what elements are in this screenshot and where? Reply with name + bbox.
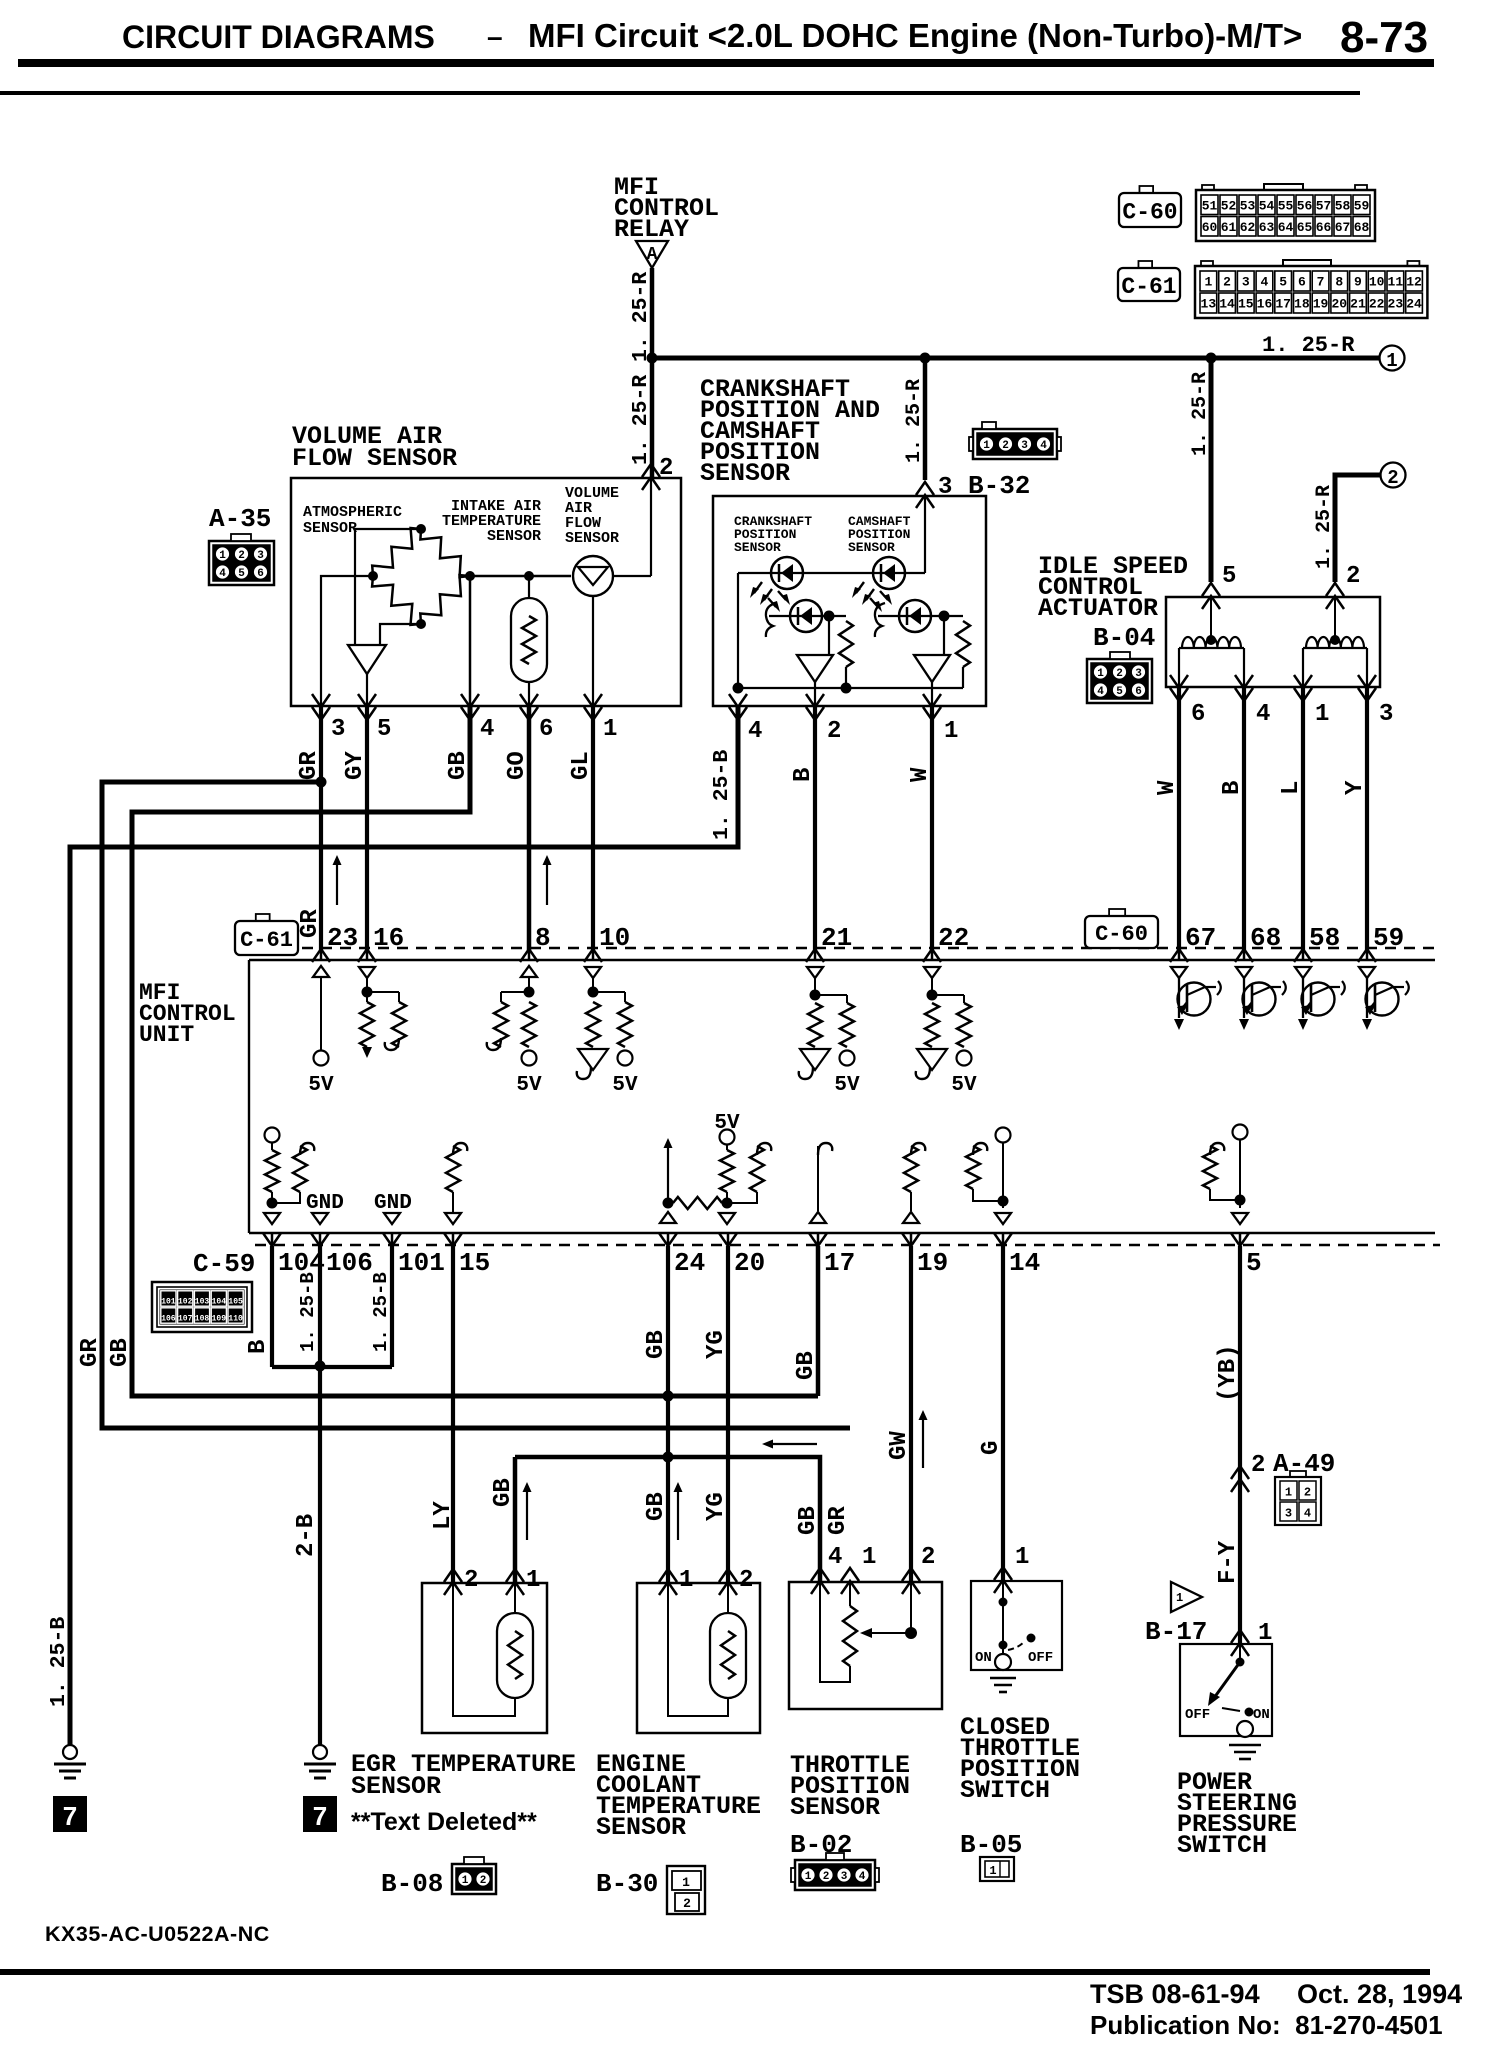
svg-text:2: 2	[823, 1871, 830, 1883]
label INTAKE AIR TEMPERATURE SENSOR	[442, 498, 541, 545]
svg-text:1: 1	[682, 1875, 690, 1890]
crank cam sensor box	[713, 496, 986, 706]
svg-text:20: 20	[734, 1248, 765, 1278]
svg-text:SENSOR: SENSOR	[351, 1772, 441, 1801]
svg-text:GB: GB	[643, 1492, 670, 1521]
svg-text:16: 16	[373, 923, 404, 953]
MFI box bottom dashed	[255, 1244, 1440, 1246]
label GW	[886, 1431, 913, 1460]
svg-text:2-B: 2-B	[293, 1514, 320, 1557]
label GB left	[107, 1338, 134, 1367]
svg-text:5V: 5V	[834, 1074, 860, 1097]
wire YB pin5 to A-49	[1238, 1246, 1242, 1644]
junction bridge top	[416, 524, 426, 534]
svg-text:3: 3	[1021, 440, 1028, 452]
label GND pin 106	[306, 1192, 344, 1215]
wire pin106 ground leg	[318, 1246, 322, 1367]
svg-text:5: 5	[1279, 275, 1287, 290]
svg-text:UNIT: UNIT	[139, 1022, 194, 1048]
svg-text:2: 2	[1346, 563, 1360, 590]
CTP switch label	[960, 1713, 1080, 1805]
svg-text:1: 1	[462, 1875, 469, 1887]
svg-text:23: 23	[1388, 297, 1404, 312]
svg-text:GB: GB	[490, 1478, 517, 1507]
junction relay bus	[647, 353, 658, 364]
svg-text:1: 1	[526, 1567, 540, 1594]
pin 4 B-32	[729, 694, 762, 745]
svg-text:OFF: OFF	[1185, 1707, 1210, 1723]
svg-text:58: 58	[1309, 923, 1340, 953]
svg-text:109: 109	[212, 1315, 227, 1324]
connector B-04 block	[1087, 652, 1152, 703]
label B-17	[1145, 1617, 1207, 1647]
header rule thin	[0, 91, 1360, 95]
label GB TPS	[795, 1506, 822, 1535]
svg-text:G: G	[978, 1441, 1005, 1455]
svg-text:67: 67	[1335, 220, 1351, 235]
pin 19 MFI bottom	[902, 1232, 948, 1278]
svg-text:1. 25-B: 1. 25-B	[47, 1617, 71, 1707]
svg-text:B-17: B-17	[1145, 1617, 1207, 1647]
junction 2-B	[315, 1361, 326, 1372]
wire GB pin24 to ECT pin1	[666, 1246, 670, 1583]
idle speed control actuator box	[1166, 597, 1380, 687]
pin 3 ISC	[1358, 675, 1393, 728]
transistor pin 58	[1295, 967, 1345, 1030]
label GR left	[77, 1338, 104, 1367]
svg-text:B-05: B-05	[960, 1830, 1022, 1860]
svg-text:2: 2	[683, 1896, 691, 1911]
svg-text:2: 2	[1304, 1486, 1311, 1500]
wire B crank pin2 to pin21	[813, 706, 817, 950]
svg-text:1. 25-R: 1. 25-R	[903, 379, 926, 463]
svg-text:2: 2	[739, 1567, 753, 1594]
transistor pin 68	[1236, 967, 1286, 1030]
svg-text:62: 62	[1240, 220, 1256, 235]
svg-text:GR: GR	[296, 751, 323, 780]
MFI box outline	[249, 960, 1435, 1233]
label GR at pin 23	[297, 909, 324, 938]
label W cam	[907, 767, 934, 782]
connector B-02 block	[791, 1853, 879, 1890]
svg-text:101: 101	[398, 1248, 445, 1278]
svg-text:3: 3	[1135, 668, 1142, 680]
svg-text:GND: GND	[374, 1192, 412, 1215]
connector C-61 label box	[1118, 261, 1180, 301]
connector C-60 label box small	[1085, 909, 1158, 948]
wire GW pin19 to TPS	[909, 1246, 913, 1582]
svg-text:107: 107	[178, 1315, 193, 1324]
pin 10 internal	[577, 967, 638, 1097]
svg-text:W: W	[1154, 780, 1181, 795]
pin 19 internal	[903, 1143, 925, 1223]
svg-text:GB: GB	[793, 1351, 820, 1380]
svg-text:59: 59	[1373, 923, 1404, 953]
svg-text:1: 1	[1015, 1544, 1029, 1571]
svg-text:10: 10	[1369, 275, 1385, 290]
svg-text:A-35: A-35	[209, 504, 271, 534]
svg-text:C-60: C-60	[1095, 922, 1148, 947]
wire GB bus1 dot check	[663, 1391, 674, 1402]
svg-text:14: 14	[1009, 1248, 1040, 1278]
svg-text:4: 4	[1261, 275, 1269, 290]
wire Y ISC3 to pin59	[1365, 687, 1369, 950]
wire crank photo to node	[822, 615, 846, 617]
connector B-05 block	[980, 1857, 1014, 1881]
pin 17 internal	[810, 1143, 832, 1223]
pin 2 ISC	[1326, 563, 1360, 609]
svg-text:15: 15	[1238, 297, 1254, 312]
svg-text:68: 68	[1354, 220, 1370, 235]
pin 16 internal	[359, 967, 406, 1058]
svg-text:B: B	[245, 1340, 272, 1354]
svg-text:4: 4	[219, 568, 226, 580]
label 2-B	[293, 1514, 320, 1557]
svg-text:58: 58	[1335, 198, 1351, 213]
svg-text:6: 6	[1191, 701, 1205, 728]
junction IAT tap	[524, 571, 534, 581]
svg-text:19: 19	[1313, 297, 1329, 312]
svg-text:GO: GO	[504, 751, 531, 780]
svg-text:1. 25-R: 1. 25-R	[629, 375, 653, 465]
pin 1 B-32	[923, 694, 958, 745]
svg-text:14: 14	[1219, 297, 1235, 312]
pin 16 MFI top	[358, 923, 404, 962]
svg-text:52: 52	[1221, 198, 1237, 213]
svg-text:GY: GY	[342, 751, 369, 780]
wire GR pin3 to pin23	[319, 706, 323, 950]
svg-text:110: 110	[228, 1315, 243, 1324]
svg-text:1. 25-B: 1. 25-B	[297, 1272, 319, 1352]
TPS wiper	[860, 1582, 917, 1639]
svg-text:GR: GR	[297, 909, 324, 938]
svg-text:4: 4	[480, 716, 494, 743]
pin 5 VAF	[358, 694, 391, 743]
resistor cam sensor	[956, 621, 970, 688]
arrow left GB bus	[762, 1440, 817, 1449]
svg-text:105: 105	[228, 1298, 243, 1307]
resistor bridge atmospheric sensor	[372, 528, 470, 625]
pin 1 ECT	[659, 1567, 693, 1595]
label 1.25-R lower	[629, 375, 653, 465]
svg-text:68: 68	[1250, 923, 1281, 953]
svg-text:7: 7	[313, 1801, 327, 1831]
label GO	[504, 751, 531, 780]
wire 1.25-R to ISC pin5	[1209, 358, 1214, 582]
connector B-32 block	[969, 422, 1061, 459]
svg-text:6: 6	[539, 716, 553, 743]
svg-text:SWITCH: SWITCH	[960, 1776, 1050, 1805]
pin 24 internal	[660, 1138, 722, 1223]
label F-Y	[1215, 1540, 1242, 1584]
symbol B-17 triangle	[1171, 1582, 1202, 1612]
svg-text:1: 1	[1386, 350, 1397, 372]
connector C-61 pin block	[1195, 260, 1427, 318]
svg-text:Oct. 28, 1994: Oct. 28, 1994	[1297, 1979, 1462, 2009]
wire bridge right node	[470, 575, 571, 578]
svg-text:Publication No: 81-270-4501: Publication No: 81-270-4501	[1090, 2010, 1443, 2040]
pin 23 MFI top	[312, 923, 358, 962]
label YG ECT	[703, 1492, 730, 1521]
op-amp atmospheric sensor	[348, 645, 386, 674]
svg-text:4: 4	[828, 1544, 842, 1571]
LED crankshaft position sensor	[771, 557, 803, 589]
pin 106 internal	[312, 1213, 328, 1224]
pin 2 VAF	[642, 455, 673, 490]
wire crank node down	[828, 616, 830, 655]
pin 14 MFI bottom	[994, 1232, 1040, 1278]
label B pin104	[245, 1340, 272, 1354]
pin 101 MFI bottom	[383, 1232, 445, 1278]
svg-text:17: 17	[824, 1248, 855, 1278]
label GB ECT	[643, 1492, 670, 1521]
pin 1 ISC	[1294, 675, 1329, 728]
svg-text:12: 12	[1406, 275, 1422, 290]
header rule thick	[18, 59, 1434, 67]
arrow up GB EGR	[523, 1482, 532, 1540]
svg-text:RELAY: RELAY	[614, 215, 689, 244]
wire G pin14 to CTP	[1001, 1246, 1005, 1581]
connector A-49 block	[1275, 1471, 1321, 1525]
label GB pin17	[793, 1351, 820, 1380]
junction bridge right	[465, 571, 475, 581]
pin 17 MFI bottom	[809, 1232, 855, 1278]
svg-text:1: 1	[944, 718, 958, 745]
ground ref box 7 left	[54, 1797, 86, 1831]
pin 24 MFI bottom	[659, 1232, 705, 1278]
svg-text:8: 8	[1335, 275, 1343, 290]
svg-text:4: 4	[748, 718, 762, 745]
pin 2 B-32	[806, 694, 841, 745]
connector C-59 label	[193, 1249, 255, 1279]
wire W cam pin1 to pin22	[930, 706, 934, 950]
pin 8 internal	[487, 966, 542, 1097]
svg-text:1. 25-R: 1. 25-R	[629, 272, 653, 362]
svg-text:GR: GR	[77, 1338, 104, 1367]
svg-text:4: 4	[859, 1871, 866, 1883]
svg-text:1. 25-R: 1. 25-R	[1313, 485, 1336, 569]
svg-text:OFF: OFF	[1028, 1650, 1053, 1666]
svg-text:L: L	[1278, 781, 1305, 795]
svg-text:57: 57	[1316, 198, 1332, 213]
label GR TPS	[825, 1506, 852, 1535]
wire GR left loop	[102, 782, 850, 1428]
pin 20 MFI bottom	[719, 1232, 765, 1278]
svg-text:1. 25-B: 1. 25-B	[710, 750, 734, 840]
svg-text:ON: ON	[1253, 1707, 1270, 1723]
label GND pin 101	[374, 1192, 412, 1215]
svg-text:GB: GB	[107, 1338, 134, 1367]
connector B-30 block	[667, 1866, 705, 1914]
svg-text:106: 106	[326, 1248, 373, 1278]
svg-text:MFI Circuit <2.0L DOHC Engine: MFI Circuit <2.0L DOHC Engine (Non-Turbo…	[528, 17, 1302, 54]
svg-text:1. 25-R: 1. 25-R	[1262, 333, 1355, 358]
svg-text:5: 5	[377, 716, 391, 743]
svg-text:**Text Deleted**: **Text Deleted**	[351, 1808, 537, 1836]
pin 3 VAF	[312, 694, 345, 743]
svg-text:54: 54	[1259, 198, 1275, 213]
wire 1.25-R to B-32 pin3	[923, 358, 928, 480]
ECT sensor box	[637, 1583, 760, 1733]
svg-text:B: B	[790, 768, 817, 782]
svg-text:1: 1	[805, 1871, 812, 1883]
junction cam photo	[939, 611, 950, 622]
label B-08	[381, 1869, 443, 1899]
wire crank bottom bus	[738, 687, 963, 689]
label YG pin20	[703, 1330, 730, 1359]
TPS box	[789, 1582, 942, 1709]
label 1.25-B near pin4	[710, 750, 734, 840]
pin 2 EGR	[444, 1567, 478, 1595]
pin 68 MFI top	[1235, 923, 1281, 962]
terminal 1 circle	[1380, 346, 1405, 373]
label (YB)	[1215, 1344, 1242, 1402]
svg-text:9: 9	[1354, 275, 1362, 290]
svg-text:4: 4	[1097, 686, 1104, 698]
svg-text:SENSOR: SENSOR	[303, 520, 357, 537]
svg-text:5V: 5V	[516, 1074, 542, 1097]
svg-text:B-08: B-08	[381, 1869, 443, 1899]
svg-text:6: 6	[1135, 686, 1142, 698]
label GB EGR	[490, 1478, 517, 1507]
coil ISC 2	[1303, 597, 1367, 687]
label GB pin24	[643, 1330, 670, 1359]
svg-text:2: 2	[1223, 275, 1231, 290]
footer code KX35	[45, 1922, 270, 1946]
footer rule	[0, 1969, 1430, 1975]
photodiode camshaft sensor	[875, 600, 931, 637]
pin 2 ECT	[719, 1567, 753, 1595]
pin 1 EGR	[506, 1567, 540, 1595]
svg-text:53: 53	[1240, 198, 1256, 213]
pin 2 A-49	[1231, 1449, 1335, 1492]
pin 106 MFI bottom	[311, 1232, 373, 1278]
svg-text:1: 1	[603, 716, 617, 743]
terminal 2 circle	[1381, 463, 1406, 490]
svg-text:6: 6	[1298, 275, 1306, 290]
pin 15 MFI bottom	[444, 1232, 490, 1278]
svg-text:2: 2	[827, 718, 841, 745]
op-amp cam sensor	[914, 655, 950, 706]
wire bridge right down to pin 4	[469, 576, 472, 706]
label L ISC	[1278, 781, 1305, 795]
pin 15 internal	[445, 1143, 467, 1224]
label 1.25-R ISC2	[1313, 485, 1336, 569]
svg-text:8-73: 8-73	[1340, 13, 1428, 62]
EGR sensor label	[351, 1750, 576, 1801]
pin 4 ISC	[1235, 675, 1270, 728]
svg-text:SENSOR: SENSOR	[734, 540, 781, 555]
svg-text:1: 1	[1097, 668, 1104, 680]
svg-text:2: 2	[1251, 1452, 1265, 1479]
wire GL pin1 to pin10	[591, 706, 595, 950]
junction crank bus res	[841, 683, 852, 694]
svg-text:F-Y: F-Y	[1215, 1540, 1242, 1584]
connector C-61 label box small	[235, 914, 298, 955]
light arrows camshaft sensor	[852, 582, 892, 612]
connector B-08 block	[452, 1857, 496, 1894]
footer TSB	[1090, 1979, 1462, 2009]
svg-text:LY: LY	[430, 1501, 457, 1530]
svg-text:C-59: C-59	[193, 1249, 255, 1279]
label B-05	[960, 1830, 1022, 1860]
ECT sensor label	[596, 1750, 761, 1842]
pin 4 VAF	[461, 694, 494, 743]
connector A-35 label	[209, 504, 271, 534]
svg-text:24: 24	[1406, 297, 1422, 312]
wire 1.25-R terminal2 to ISC pin2	[1335, 475, 1380, 582]
junction bus to ISC	[1206, 353, 1217, 364]
label W ISC	[1154, 780, 1181, 795]
svg-text:6: 6	[257, 568, 264, 580]
label GY	[342, 751, 369, 780]
svg-text:GW: GW	[886, 1431, 913, 1460]
svg-text:4: 4	[1304, 1507, 1311, 1521]
CTP ground	[990, 1678, 1016, 1692]
pin 8 MFI top	[520, 923, 551, 962]
pin 10 MFI top	[584, 923, 630, 962]
volume air flow sensor box	[291, 478, 681, 706]
junction crank bus left	[733, 683, 744, 694]
wire GB pin4 left loop	[132, 706, 818, 1396]
connector A-35 block	[209, 534, 274, 585]
pin 4 TPS	[811, 1544, 842, 1594]
pin 14 internal	[966, 1128, 1011, 1225]
CTP switch box	[971, 1581, 1062, 1670]
wire ground U bus	[272, 1365, 392, 1369]
pin 1 TPS	[841, 1544, 876, 1594]
transistor pin 67	[1171, 967, 1221, 1030]
svg-text:7: 7	[63, 1801, 77, 1831]
transistor pin 59	[1359, 967, 1409, 1030]
pin 5 ISC	[1202, 563, 1236, 609]
CTP switch contacts	[975, 1581, 1053, 1670]
svg-text:108: 108	[195, 1315, 210, 1324]
svg-text:5V: 5V	[714, 1112, 740, 1135]
label B ISC	[1219, 781, 1246, 795]
svg-text:13: 13	[1201, 297, 1217, 312]
arrow up GO pin8	[543, 855, 552, 905]
svg-text:1: 1	[679, 1567, 693, 1594]
EGR sensor box	[422, 1583, 547, 1733]
pin 22 MFI top	[923, 923, 969, 962]
svg-text:GB: GB	[643, 1330, 670, 1359]
intake air temperature sensor capsule	[511, 576, 547, 706]
svg-text:56: 56	[1297, 198, 1313, 213]
svg-text:1: 1	[989, 1864, 996, 1878]
svg-text:ACTUATOR: ACTUATOR	[1038, 594, 1158, 623]
svg-text:1. 25-R: 1. 25-R	[1189, 372, 1212, 456]
label 1.25-R bus	[1262, 333, 1355, 358]
label camshaft position sensor inner	[848, 514, 911, 555]
svg-text:101: 101	[161, 1298, 176, 1307]
svg-text:1. 25-B: 1. 25-B	[370, 1272, 392, 1352]
svg-text:67: 67	[1185, 923, 1216, 953]
wire amp to pin 5	[366, 674, 368, 706]
svg-text:21: 21	[821, 923, 852, 953]
pin 20 internal 5V	[714, 1112, 771, 1224]
svg-text:55: 55	[1278, 198, 1294, 213]
svg-text:1: 1	[1176, 1591, 1183, 1605]
svg-text:SENSOR: SENSOR	[596, 1813, 686, 1842]
TPS label	[790, 1751, 910, 1822]
svg-text:103: 103	[195, 1298, 210, 1307]
svg-text:GB: GB	[795, 1506, 822, 1535]
svg-text:1: 1	[983, 440, 990, 452]
wire GB bus2	[515, 1457, 820, 1582]
svg-text:3: 3	[841, 1871, 848, 1883]
svg-text:SENSOR: SENSOR	[790, 1793, 880, 1822]
